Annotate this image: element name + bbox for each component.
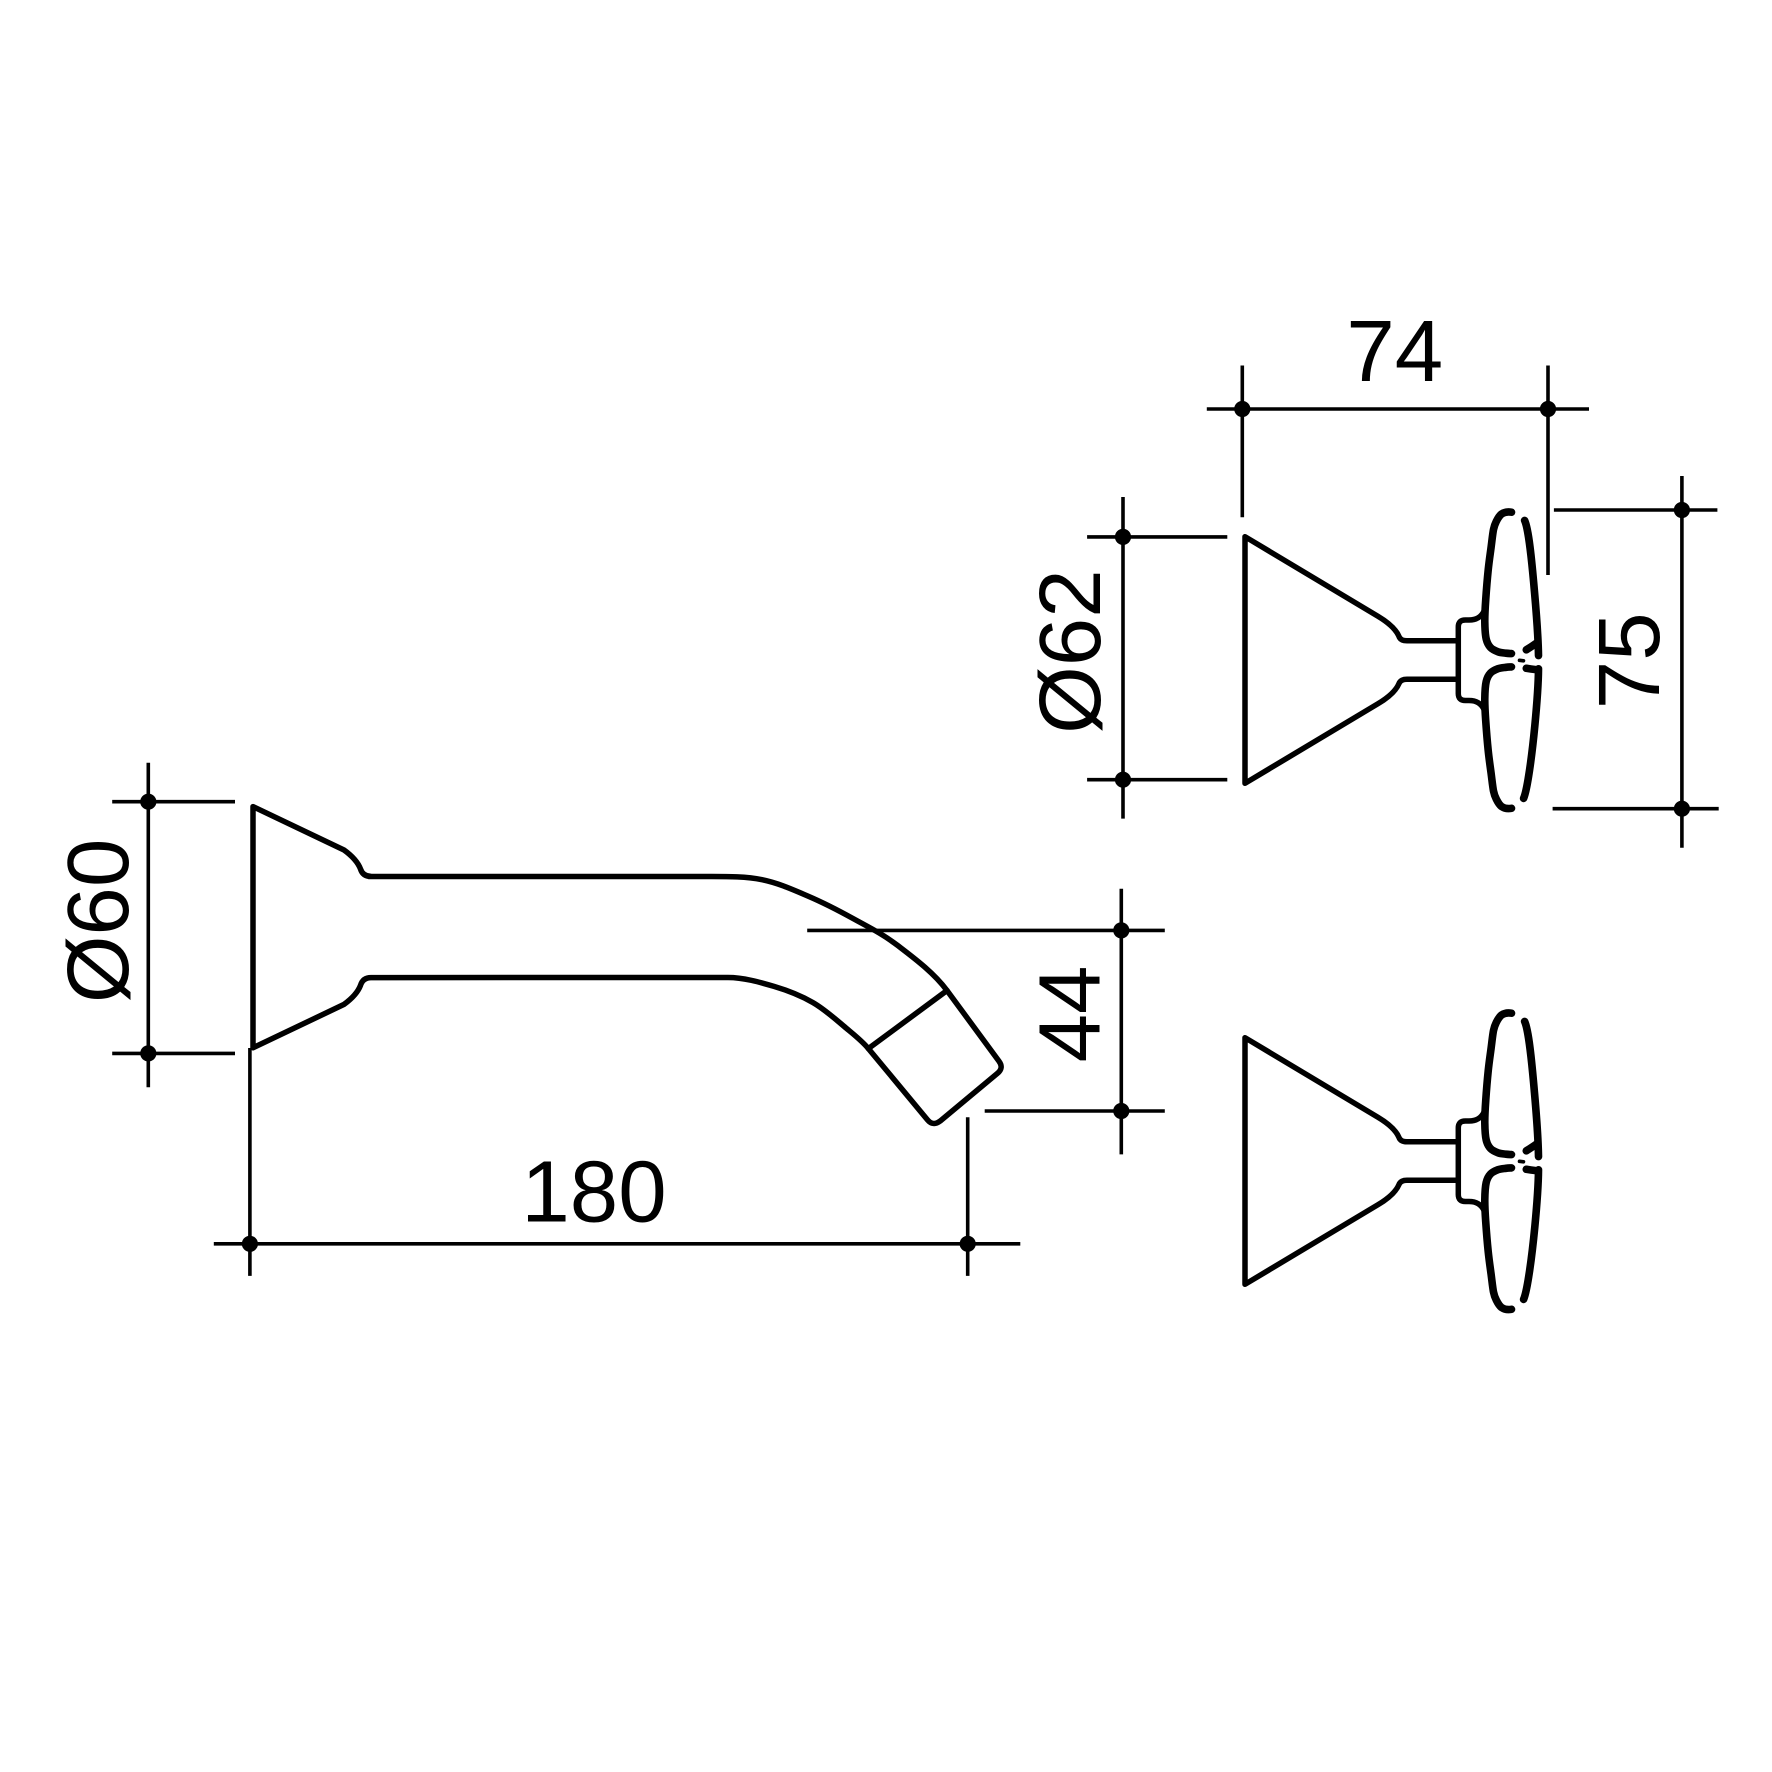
spout aerator joint line	[868, 991, 947, 1049]
svg-text:Ø62: Ø62	[1022, 569, 1119, 733]
dot O62 bottom	[1115, 772, 1131, 788]
waist right lower connector	[1526, 668, 1536, 669]
svg-text:74: 74	[1346, 303, 1443, 400]
dim 180 left extension	[248, 1048, 252, 1276]
dim 74 right extension	[1546, 366, 1550, 576]
svg-text:44: 44	[1021, 966, 1118, 1063]
dim 74 line	[1207, 407, 1589, 411]
upper right outline	[1525, 520, 1539, 655]
dim 75 bottom extension	[1553, 807, 1719, 811]
dim O60 line	[147, 763, 151, 1088]
dim 180 line	[214, 1242, 1021, 1246]
dot 75 bottom	[1674, 801, 1690, 817]
dot 75 top	[1674, 502, 1690, 518]
svg-text:180: 180	[521, 1144, 666, 1241]
waist middle dash	[1520, 658, 1524, 662]
dot O62 top	[1115, 529, 1131, 545]
dot 180 left	[242, 1236, 258, 1252]
dot 74 left	[1234, 401, 1250, 417]
dimension labels	[50, 303, 1678, 1241]
upper lobe left + top cap + upper waist curve	[1485, 512, 1512, 654]
dim O60 bottom tick	[112, 1052, 235, 1056]
dot 44 bottom	[1113, 1103, 1129, 1119]
dim 74 left extension	[1241, 366, 1245, 518]
dim 44 top extension	[807, 929, 1165, 933]
dot O60 bottom	[140, 1045, 156, 1061]
dim 44 bottom extension	[985, 1109, 1165, 1113]
dim 75 line	[1680, 476, 1684, 848]
dim O62 top tick	[1087, 535, 1227, 539]
handle cross-grip (side view)	[1485, 512, 1539, 809]
spout body outline	[253, 807, 1001, 1124]
dimension end dots	[140, 401, 1690, 1252]
svg-text:75: 75	[1581, 612, 1678, 709]
dot O60 top	[140, 794, 156, 810]
waist right upper connector	[1526, 643, 1536, 650]
dot 44 top	[1113, 922, 1129, 938]
lower right outline	[1524, 669, 1539, 799]
dim O62 bottom tick	[1087, 778, 1227, 782]
dim O62 line	[1121, 497, 1125, 819]
handle hub	[1458, 611, 1484, 710]
dot 74 right	[1540, 401, 1556, 417]
lower lobe left + lower waist curve + bottom cap	[1485, 667, 1512, 809]
dim O60 top tick	[112, 800, 235, 804]
dot 180 right	[960, 1236, 976, 1252]
dim 180 right extension (spout outlet)	[966, 1117, 970, 1276]
svg-text:Ø60: Ø60	[50, 839, 147, 1003]
dim 44 line	[1120, 889, 1124, 1155]
dim 75 top extension	[1554, 508, 1718, 512]
handle cone (flange)	[1245, 537, 1484, 784]
